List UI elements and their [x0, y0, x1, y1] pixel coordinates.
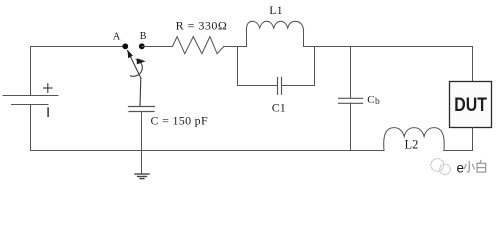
capacitor C1 plates: [278, 78, 282, 95]
wire battery bottom to bottom rail: [31, 105, 385, 151]
svg-text:L1: L1: [269, 3, 282, 17]
svg-text:R = 330Ω: R = 330Ω: [176, 18, 228, 32]
svg-text:A: A: [113, 31, 121, 42]
inductor L1 left riser: [246, 32, 248, 47]
watermark text xiao (SVG strokes): [464, 162, 474, 172]
bottom rail L2 to DUT: [444, 150, 473, 152]
capacitor C1 left leg: [238, 47, 278, 86]
capacitor C1 label: [272, 100, 286, 114]
watermark text bai (SVG strokes): [477, 161, 486, 173]
resistor R: [172, 37, 223, 54]
switch swing arrow: [131, 60, 143, 77]
DUT label: [454, 94, 487, 116]
svg-text:C: C: [367, 94, 374, 106]
inductor L1 right riser: [303, 32, 305, 47]
inductor L2 label: [405, 138, 419, 152]
node A label: [113, 31, 121, 42]
svg-text:C = 150 pF: C = 150 pF: [151, 114, 208, 128]
svg-text:e: e: [457, 161, 465, 176]
DUT box: [450, 82, 492, 128]
capacitor C1 right leg: [282, 47, 315, 86]
svg-text:B: B: [140, 31, 147, 42]
resistor R value label: [176, 18, 228, 32]
capacitor Cb stem top: [350, 47, 352, 99]
inductor L2: [384, 128, 444, 151]
battery - label: [47, 108, 49, 116]
node B label: [140, 31, 147, 42]
wire resistor to L1 block: [224, 46, 247, 48]
watermark logo: [431, 159, 451, 175]
svg-text:b: b: [375, 97, 380, 107]
capacitor Cb label: [367, 94, 380, 107]
switch blade arrowhead: [128, 50, 133, 58]
battery BT1: [3, 96, 58, 105]
inductor L1 label: [269, 3, 282, 17]
wire capacitor C to ground: [141, 112, 143, 174]
capacitor Cb plates: [339, 98, 363, 103]
watermark text e: [457, 161, 465, 176]
wire node B to resistor: [142, 46, 173, 48]
wire DUT bottom to bottom rail: [472, 128, 474, 151]
capacitor Cb stem bottom: [350, 103, 352, 150]
capacitor C plates: [129, 107, 155, 112]
ground: [135, 174, 149, 179]
svg-text:DUT: DUT: [454, 94, 487, 116]
inductor L1: [246, 21, 303, 32]
capacitor C value label: [151, 114, 208, 128]
switch swing arrowhead: [137, 58, 146, 64]
wire battery top to node A: [31, 47, 126, 96]
svg-text:C1: C1: [272, 100, 286, 114]
wire top rail down to DUT: [472, 47, 474, 82]
battery + label: [44, 84, 53, 93]
switch blade: [128, 51, 141, 107]
main wire L1 block to DUT corner: [304, 46, 473, 48]
node B: [139, 43, 145, 49]
svg-text:L2: L2: [405, 138, 419, 152]
node A: [122, 43, 128, 49]
